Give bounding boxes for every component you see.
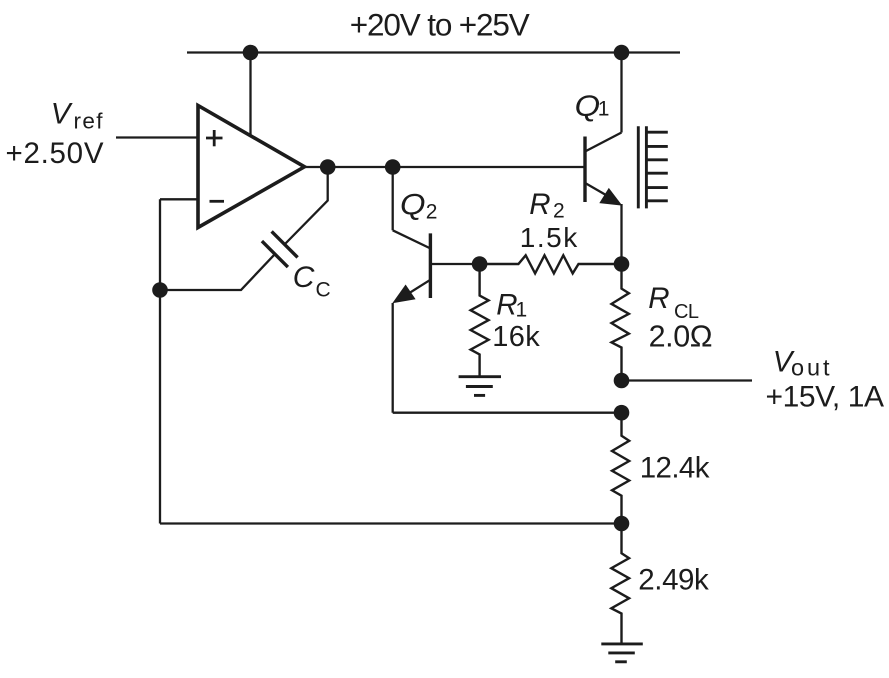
- op-amp U1: [198, 106, 305, 228]
- transistor Q2 collector lead: [393, 230, 430, 248]
- transistor Q2 emitter lead: [399, 280, 430, 299]
- node Vref label: [6, 97, 104, 170]
- capacitor C_C plate lower: [262, 241, 288, 267]
- svg-text:12.4k: 12.4k: [640, 451, 710, 484]
- resistor R1 label: [492, 289, 540, 354]
- svg-text:R: R: [648, 282, 669, 315]
- wire minus input: [160, 198, 198, 200]
- svg-text:ref: ref: [74, 109, 104, 134]
- wire Q2 emitter return: [393, 412, 622, 414]
- transistor Q2 label: [400, 189, 437, 224]
- ground R1: [459, 377, 501, 396]
- junction dot emitter return node: [614, 405, 630, 421]
- op-amp minus input sign: [210, 200, 225, 203]
- wire Vout: [622, 379, 753, 381]
- svg-text:out: out: [791, 355, 830, 381]
- wire left feedback vertical: [159, 199, 161, 523]
- resistor RCL label: [648, 282, 712, 353]
- wire op-amp supply pin: [249, 53, 251, 137]
- wire op-amp output to Q1 base: [305, 166, 584, 168]
- wire Q2 base to R1/R2 node: [430, 263, 479, 265]
- capacitor C_C label: [293, 261, 331, 301]
- svg-text:V: V: [51, 97, 73, 130]
- svg-text:2.49k: 2.49k: [638, 564, 709, 597]
- junction dot rail to Q1 collector: [614, 45, 630, 61]
- svg-text:+2.50V: +2.50V: [6, 137, 104, 170]
- svg-text:1: 1: [516, 299, 528, 322]
- transistor Q1 label: [575, 90, 610, 123]
- wire Q1 collector vertical: [620, 53, 622, 133]
- junction dot Q2 collector branch: [385, 159, 401, 175]
- capacitor C_C plate upper: [272, 231, 298, 257]
- transistor Q1 emitter arrow: [599, 188, 622, 206]
- transistor Q1 base bar: [583, 137, 586, 203]
- svg-text:+20V to +25V: +20V to +25V: [350, 6, 530, 42]
- junction dot divider mid node: [614, 516, 630, 532]
- resistor R2 label: [520, 188, 578, 253]
- svg-text:1: 1: [598, 97, 610, 120]
- svg-text:1.5k: 1.5k: [520, 222, 578, 253]
- svg-text:R: R: [496, 289, 517, 322]
- svg-text:R: R: [529, 188, 550, 221]
- resistor R2: [480, 255, 622, 273]
- transistor Q1 emitter lead: [586, 184, 612, 199]
- svg-text:Q: Q: [575, 90, 601, 123]
- resistor 12.4k: [612, 413, 629, 524]
- wire capacitor to feedback node: [160, 254, 275, 290]
- junction dot op-amp output: [320, 159, 336, 175]
- svg-text:C: C: [316, 278, 331, 301]
- svg-text:Q: Q: [400, 189, 426, 222]
- junction dot rail to op-amp V+: [243, 45, 259, 61]
- junction dot R2 left / R1 / Q2 base: [472, 256, 488, 272]
- wire Q2 emitter vertical: [392, 303, 394, 413]
- wire top supply rail: [187, 51, 680, 53]
- ground bottom: [601, 644, 643, 662]
- svg-text:2: 2: [426, 201, 438, 224]
- op-amp plus input sign: [206, 130, 223, 146]
- wire feedback bottom horizontal: [160, 522, 622, 524]
- resistor RCL: [612, 264, 629, 381]
- transistor Q2 emitter arrow: [392, 285, 415, 304]
- heatsink vertical bars: [638, 126, 646, 208]
- heatsink fins: [646, 132, 667, 201]
- wire Q1 emitter vertical: [620, 204, 622, 264]
- wire Q2 collector vertical: [392, 167, 394, 230]
- resistor R1: [471, 264, 489, 377]
- svg-text:16k: 16k: [492, 321, 540, 353]
- wire Vref to plus input: [116, 136, 198, 138]
- svg-text:+15V, 1A: +15V, 1A: [766, 381, 885, 414]
- transistor Q2 base bar: [429, 233, 432, 298]
- node Vout label: [766, 345, 885, 413]
- wire output down to capacitor: [285, 167, 328, 245]
- junction dot R2 right / RCL / Q1 emitter: [614, 256, 630, 272]
- junction dot feedback/capacitor: [152, 282, 168, 298]
- svg-text:C: C: [293, 261, 315, 294]
- svg-text:2: 2: [553, 200, 565, 223]
- svg-text:2.0Ω: 2.0Ω: [649, 320, 713, 354]
- junction dot Vout node: [614, 373, 630, 389]
- transistor Q1 collector lead: [586, 133, 622, 152]
- resistor 2.49k: [611, 524, 629, 644]
